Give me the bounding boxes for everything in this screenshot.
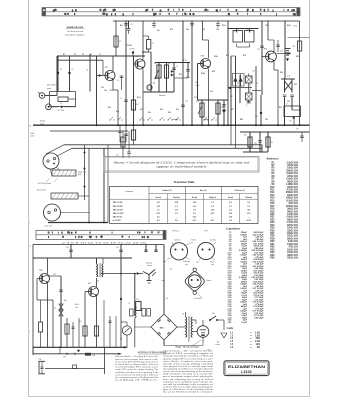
svg-text:sections below test while play: sections below test while played playing… <box>163 385 213 388</box>
svg-text:150kΩ 10%: 150kΩ 10% <box>286 170 298 172</box>
diodes D3 D4 <box>228 74 252 90</box>
meter M1 <box>120 326 132 341</box>
svg-text:33kΩ 10%: 33kΩ 10% <box>287 230 298 232</box>
svg-text:TR1 AC107: TR1 AC107 <box>113 201 123 204</box>
svg-text:overall by midlands with a num: overall by midlands with a number of <box>163 383 214 386</box>
wire bottom B <box>33 353 120 355</box>
svg-text:L6: L6 <box>29 246 31 248</box>
svg-text:L1: L1 <box>129 303 131 305</box>
page bottom border <box>29 396 310 398</box>
resistor R25 <box>266 131 273 152</box>
svg-text:C38: C38 <box>63 357 66 359</box>
svg-text:0.9: 0.9 <box>157 202 160 204</box>
svg-text:R19: R19 <box>243 55 246 57</box>
wire x256 drop <box>255 66 257 125</box>
transformer T3 <box>182 313 192 339</box>
svg-text:Coils: Coils <box>227 326 234 330</box>
wire ac mains <box>216 320 228 346</box>
svg-text:R9: R9 <box>168 63 170 65</box>
svg-text:C33: C33 <box>265 119 268 121</box>
wire bottom A (deep bus) <box>33 346 126 348</box>
svg-text:R41: R41 <box>79 321 82 323</box>
capacitor C11b on rail <box>216 20 220 28</box>
connector TP4 view <box>196 239 216 267</box>
driver stage crossover <box>281 76 295 126</box>
capacitor C39 box <box>136 299 141 311</box>
erase head (hatched) <box>37 189 78 199</box>
svg-text:C11: C11 <box>185 101 188 103</box>
svg-text:(record): (record) <box>172 119 178 121</box>
svg-text:Playback: Playback <box>245 197 252 199</box>
svg-text:Pre-Set but record: Pre-Set but record <box>67 30 83 33</box>
wire bottom C <box>45 368 105 370</box>
svg-text:C10a: C10a <box>186 77 190 79</box>
svg-text:0.75: 0.75 <box>211 220 215 222</box>
svg-text:(play): (play) <box>204 119 209 121</box>
block radio input box <box>50 92 76 107</box>
lower rail A <box>33 244 164 246</box>
capacitor C4 on rail <box>124 20 128 125</box>
capacitor C7 <box>172 62 178 92</box>
svg-text:C15: C15 <box>257 49 260 51</box>
svg-text:C27: C27 <box>289 121 292 123</box>
svg-text:C42: C42 <box>66 247 69 249</box>
wire TR3 emitter <box>208 69 210 126</box>
wire TR9 leads <box>85 291 91 293</box>
svg-text:L2: L2 <box>237 83 239 85</box>
svg-text:11.8: 11.8 <box>229 216 232 218</box>
svg-text:After Check.—Loudness, select: After Check.—Loudness, select a record- <box>163 360 214 363</box>
svg-text:A.C.: A.C. <box>217 341 221 344</box>
svg-text:47kΩ 10%: 47kΩ 10% <box>287 164 298 167</box>
transistor TR4 <box>264 49 277 62</box>
wire input bus y56 <box>57 55 145 57</box>
svg-text:R16: R16 <box>220 107 223 109</box>
svg-text:8.0: 8.0 <box>248 209 251 211</box>
svg-text:appear in individual models: appear in individual models <box>157 165 208 169</box>
svg-text:TP1/2, 3: TP1/2, 3 <box>172 231 179 233</box>
wire TR2 collector <box>142 21 144 59</box>
svg-text:C22: C22 <box>294 84 297 86</box>
wire y110 link <box>292 109 300 111</box>
svg-text:R2 100k: R2 100k <box>58 110 64 112</box>
wire x235 below bus <box>235 125 237 148</box>
resistor R41 <box>79 321 87 347</box>
svg-text:M1: M1 <box>120 339 122 341</box>
svg-text:C39: C39 <box>39 359 42 361</box>
svg-text:MB1: MB1 <box>160 328 164 330</box>
wire input bus y60 <box>57 59 103 61</box>
wire signal line B <box>72 147 262 149</box>
wire mid link y52 <box>144 51 152 53</box>
capacitors list continued <box>251 231 264 319</box>
electrolytic C10 <box>129 49 135 57</box>
transformer T2 <box>97 258 104 283</box>
svg-text:C13: C13 <box>246 29 249 31</box>
svg-text:10kΩ 10%: 10kΩ 10% <box>287 249 298 251</box>
wire y97 link <box>252 90 261 92</box>
pot RV5 <box>196 99 204 125</box>
svg-text:6.8Ω 10%: 6.8Ω 10% <box>288 241 298 243</box>
svg-text:R23: R23 <box>296 56 299 58</box>
wire TR3 base <box>198 63 204 65</box>
svg-text:56kΩ 10%: 56kΩ 10% <box>287 181 298 183</box>
svg-text:oscillator coil may need re-pe: oscillator coil may need re-peaking if t… <box>115 371 158 374</box>
svg-text:R36: R36 <box>270 257 275 260</box>
svg-text:C15a: C15a <box>265 25 269 27</box>
wire to lower section <box>103 148 105 222</box>
motor M <box>192 320 209 346</box>
svg-text:5.6kΩ 10%: 5.6kΩ 10% <box>286 217 298 219</box>
svg-text:R20: R20 <box>280 72 283 74</box>
wire x192 drop <box>190 20 197 125</box>
svg-text:C39: C39 <box>136 299 139 301</box>
svg-text:S1a: S1a <box>148 112 151 114</box>
wire mic to mixer <box>56 56 58 96</box>
svg-text:R13: R13 <box>194 97 197 99</box>
svg-text:C1: C1 <box>99 54 101 56</box>
svg-text:Emitter (V): Emitter (V) <box>163 189 173 192</box>
note erase-record text <box>65 26 84 37</box>
wire x285 drop <box>284 21 286 79</box>
svg-text:470Ω 10%: 470Ω 10% <box>287 175 298 178</box>
svg-text:erase head current falls below: erase head current falls below 18mA at <box>115 373 159 376</box>
svg-text:also playing of 3,000 c/s corr: also playing of 3,000 c/s correctly adju… <box>163 368 213 371</box>
svg-text:1.6: 1.6 <box>211 206 214 208</box>
node 12V supply rail <box>113 20 300 22</box>
capacitor C12 <box>228 29 258 43</box>
svg-text:reads 0.9V across the output w: reads 0.9V across the output winding. Th… <box>115 368 158 371</box>
svg-text:3.9kΩ 10%: 3.9kΩ 10% <box>286 173 298 175</box>
capacitor C9b on rail <box>152 20 156 28</box>
zener ZD2 <box>54 308 63 316</box>
svg-text:Va2: Va2 <box>210 91 213 93</box>
svg-text:Speaker: Speaker <box>146 261 153 264</box>
capacitor C45 <box>154 245 158 253</box>
svg-text:grounded on playback: grounded on playback <box>65 35 84 37</box>
svg-text:C3: C3 <box>82 54 84 56</box>
wire motor bottom bus <box>164 345 203 347</box>
svg-text:Resistors: Resistors <box>267 157 280 161</box>
svg-text:TR1: TR1 <box>105 67 109 69</box>
wire TR4 out arrow <box>277 53 290 55</box>
svg-text:R3: R3 <box>119 41 121 43</box>
svg-text:LZ102: LZ102 <box>241 370 251 374</box>
svg-text:C19: C19 <box>255 116 258 118</box>
svg-text:input: input <box>47 87 52 90</box>
svg-text:0.1μF: 0.1μF <box>241 322 247 324</box>
svg-text:15kΩ 10%: 15kΩ 10% <box>287 228 298 230</box>
svg-text:to check and recording switch.: to check and recording switch. Switch to <box>115 363 158 366</box>
svg-text:R17a: R17a <box>222 25 226 27</box>
wire y152 link <box>243 151 268 153</box>
svg-text:the resonant frequency. Readju: the resonant frequency. Readjust until t… <box>115 376 158 379</box>
svg-text:C5a: C5a <box>101 87 104 89</box>
capacitor C16 <box>276 40 280 52</box>
svg-text:0.6: 0.6 <box>175 220 178 222</box>
connector TP1/2 view <box>163 239 197 266</box>
wire y309 link <box>66 318 68 347</box>
svg-text:TR4 AC128*: TR4 AC128* <box>113 212 124 215</box>
svg-text:4.7kΩ 10%: 4.7kΩ 10% <box>286 189 298 192</box>
svg-text:quality output RV5 to connecti: quality output RV5 to connecting of a pr… <box>163 357 214 360</box>
coils list <box>227 326 261 349</box>
svg-text:1.4: 1.4 <box>175 206 178 208</box>
wire TR2 emitter <box>142 69 144 125</box>
wire bottom D <box>32 347 34 354</box>
svg-text:ELIZABETHAN: ELIZABETHAN <box>228 365 265 369</box>
wire TR8 leads <box>47 258 49 274</box>
svg-text:8.2kΩ 10%: 8.2kΩ 10% <box>286 200 298 202</box>
svg-text:0.6: 0.6 <box>157 220 160 222</box>
svg-text:D6: D6 <box>166 298 168 300</box>
diode D1 <box>57 55 62 91</box>
svg-text:12Ω: 12Ω <box>256 344 261 346</box>
svg-text:6.4: 6.4 <box>229 202 232 204</box>
wire TR2 base <box>134 63 138 65</box>
capacitor C42 <box>66 244 73 258</box>
bus lower-left thick <box>48 222 108 224</box>
svg-text:D2: D2 <box>72 69 74 71</box>
svg-text:C10: C10 <box>216 29 219 31</box>
svg-text:120Ω 10%: 120Ω 10% <box>287 244 298 246</box>
wire TR4 base <box>262 56 268 58</box>
svg-text:R40: R40 <box>64 300 67 302</box>
svg-text:0.3: 0.3 <box>193 213 196 215</box>
svg-text:TR8: TR8 <box>39 270 43 272</box>
svg-text:Record: Record <box>156 197 161 199</box>
svg-text:Record: Record <box>192 197 197 199</box>
svg-text:R11a: R11a <box>137 97 141 99</box>
svg-text:0.95: 0.95 <box>175 202 179 204</box>
junction dots on ground bus <box>96 124 301 126</box>
head bias components <box>116 131 131 158</box>
svg-text:ing side of the test tape play: ing side of the test tape playing a stan… <box>163 362 213 365</box>
svg-text:R15: R15 <box>212 71 215 73</box>
svg-text:the set on TV filled should be: the set on TV filled should be contacted… <box>163 391 214 394</box>
erase head connector <box>44 204 61 228</box>
svg-text:lator for correct output, firs: lator for correct output, first connect … <box>115 358 158 361</box>
text tape-head azimuth <box>163 346 214 393</box>
svg-text:R3a: R3a <box>120 25 123 27</box>
svg-text:0.35: 0.35 <box>211 213 215 215</box>
svg-text:tone; the adjusting screw may: tone; the adjusting screw may be locked <box>163 378 213 381</box>
wire speaker feed <box>120 258 122 274</box>
svg-text:S2c: S2c <box>176 109 179 111</box>
wire lower left vertical <box>32 245 34 356</box>
svg-text:C8: C8 <box>146 49 148 51</box>
svg-text:11.2: 11.2 <box>247 213 250 215</box>
pot RV2 <box>154 62 161 92</box>
svg-text:1.8kΩ 10%: 1.8kΩ 10% <box>286 233 298 235</box>
svg-text:C9a: C9a <box>186 29 189 31</box>
transistor TR1 <box>105 67 116 81</box>
wire x228 drop <box>227 21 229 125</box>
svg-text:C9c: C9c <box>157 30 160 32</box>
svg-text:R21: R21 <box>231 109 234 111</box>
svg-text:18kΩ 10%: 18kΩ 10% <box>287 195 298 197</box>
svg-text:1.2MΩ 10%: 1.2MΩ 10% <box>286 184 298 186</box>
svg-text:C30: C30 <box>254 143 257 145</box>
speaker socket <box>143 261 156 283</box>
wire TR4 collector <box>273 40 275 51</box>
svg-text:1.35: 1.35 <box>156 206 160 208</box>
test point TP1 <box>147 85 152 90</box>
capacitor C5 <box>120 98 128 102</box>
wire erase link <box>78 195 89 197</box>
lower resistor row <box>130 309 151 317</box>
svg-text:30Ω: 30Ω <box>256 338 261 340</box>
switch S1 <box>209 313 224 321</box>
svg-text:C12: C12 <box>233 31 236 33</box>
svg-text:TR3: TR3 <box>201 55 205 57</box>
svg-text:0.5Ω: 0.5Ω <box>255 341 260 343</box>
switch contacts S1-S3 <box>109 117 216 120</box>
svg-text:Playback: Playback <box>173 197 180 199</box>
resistor R3 <box>113 20 121 56</box>
svg-text:10kΩ 10%: 10kΩ 10% <box>287 168 298 170</box>
wire TR1 base <box>97 75 108 77</box>
note box <box>104 157 259 173</box>
svg-text:reading of 38kc/s.: reading of 38kc/s. <box>115 379 160 382</box>
svg-text:S1a: S1a <box>212 313 215 315</box>
svg-text:820Ω 10%: 820Ω 10% <box>287 225 298 227</box>
svg-text:R=L/S Play head: R=L/S Play head <box>38 183 51 185</box>
capacitor C30 <box>254 131 262 152</box>
resistor R24 <box>244 131 252 152</box>
svg-text:2: 2 <box>29 223 30 225</box>
wire y92 link <box>144 91 175 93</box>
wire TR3 collector <box>208 40 210 58</box>
svg-text:S1b: S1b <box>140 109 143 111</box>
wire x235 drop <box>235 56 237 125</box>
capacitors below bus left <box>118 125 135 145</box>
wire x183 drop <box>181 20 188 125</box>
record-play head (hatched) <box>52 170 86 176</box>
capacitor C2 <box>86 54 91 92</box>
svg-text:T2: T2 <box>97 281 99 283</box>
svg-text:1.5kΩ 10%: 1.5kΩ 10% <box>286 252 298 254</box>
component labels upper <box>63 25 299 121</box>
text setting up procedure <box>115 352 167 381</box>
svg-text:R15a: R15a <box>214 56 218 58</box>
svg-text:RV5: RV5 <box>196 101 199 103</box>
wire head link y131 <box>50 130 128 132</box>
svg-text:2.9: 2.9 <box>229 220 232 222</box>
wire x231 drop <box>230 56 232 125</box>
svg-text:2.0Ω: 2.0Ω <box>255 335 260 337</box>
svg-text:6.8kΩ 10%: 6.8kΩ 10% <box>286 179 298 181</box>
capacitors list <box>226 226 248 323</box>
svg-text:Base (V): Base (V) <box>200 189 207 192</box>
svg-text:L3: L3 <box>256 83 258 85</box>
enclosure box <box>85 347 105 374</box>
page right border <box>309 0 311 397</box>
svg-text:R22: R22 <box>293 46 296 48</box>
wire head leads <box>46 145 64 154</box>
svg-text:using the best condition band: using the best condition band volume the <box>163 380 213 383</box>
svg-text:Playback: Playback <box>209 197 216 199</box>
svg-text:put of maximum output while pl: put of maximum output while playing the <box>163 375 213 378</box>
wire TR1 collector <box>112 56 114 71</box>
svg-text:1.05: 1.05 <box>193 202 197 204</box>
svg-text:RV2: RV2 <box>154 63 157 65</box>
transistor TR8 <box>39 270 50 284</box>
resistor R22 <box>293 41 302 51</box>
resistors list <box>267 157 299 260</box>
svg-text:0.2: 0.2 <box>175 213 178 215</box>
svg-text:47Ω 10%: 47Ω 10% <box>288 246 298 249</box>
resistor R42 <box>38 300 98 347</box>
svg-text:1kΩ 10%: 1kΩ 10% <box>288 203 298 205</box>
svg-text:0.75: 0.75 <box>193 220 197 222</box>
svg-text:C21: C21 <box>287 101 290 103</box>
resistor R16 <box>216 99 223 125</box>
svg-text:560Ω 10%: 560Ω 10% <box>287 211 298 213</box>
wire zener link <box>37 299 53 301</box>
wire motor circuit <box>192 319 196 321</box>
bridge rectifier MB1 <box>151 314 177 340</box>
connector car socket <box>184 268 212 300</box>
svg-text:1.75: 1.75 <box>175 209 179 211</box>
svg-text:6.7: 6.7 <box>248 206 251 208</box>
svg-text:R24: R24 <box>244 135 247 137</box>
svg-text:C5: C5 <box>120 98 122 100</box>
wire lower left vertical extend <box>32 245 34 348</box>
wire bias y62 <box>155 62 190 64</box>
diode D2 <box>68 55 73 91</box>
svg-text:Transistor: Transistor <box>125 191 133 193</box>
wire head column B <box>88 148 90 222</box>
resistor R6a <box>74 54 92 56</box>
svg-text:TR4: TR4 <box>264 49 268 51</box>
capacitor C38 bracket <box>39 359 46 374</box>
svg-text:R45: R45 <box>93 355 96 357</box>
svg-text:39kΩ 10%: 39kΩ 10% <box>287 209 298 211</box>
svg-text:390Ω 10%: 390Ω 10% <box>287 255 298 257</box>
svg-text:90kΩ 10%: 90kΩ 10% <box>287 238 298 240</box>
svg-text:R18: R18 <box>226 55 229 57</box>
svg-text:Vibrator: Vibrator <box>159 94 166 97</box>
top locator ruler <box>42 8 300 16</box>
svg-text:330kΩ 10%: 330kΩ 10% <box>286 192 298 194</box>
svg-text:R17: R17 <box>230 96 233 98</box>
svg-text:68kΩ 10%: 68kΩ 10% <box>287 219 298 221</box>
transistor table <box>110 180 259 224</box>
zener ZD1 <box>59 276 63 347</box>
transistor TR3 <box>201 55 211 68</box>
svg-text:10.75: 10.75 <box>247 220 252 222</box>
wire head column A <box>84 145 86 200</box>
svg-text:TP5: TP5 <box>170 269 173 271</box>
wire x231 below bus <box>230 125 232 145</box>
svg-text:D1: D1 <box>60 69 62 71</box>
svg-text:S2b: S2b <box>168 112 171 114</box>
svg-text:Capacitors: Capacitors <box>226 226 241 230</box>
svg-text:R5: R5 <box>152 43 154 45</box>
wire bridge feed <box>163 245 165 315</box>
wire x224 drop <box>222 100 226 125</box>
svg-text:0.45: 0.45 <box>193 216 197 218</box>
svg-text:C9: C9 <box>131 24 133 26</box>
svg-text:screw, the head positioning at: screw, the head positioning at the best … <box>163 370 214 373</box>
svg-text:Radio: Radio <box>40 121 45 123</box>
lower rail B <box>33 257 132 259</box>
capacitor C32 <box>296 129 304 143</box>
svg-text:Record: Record <box>228 197 233 199</box>
inductor L1 <box>129 303 152 347</box>
svg-text:11.4: 11.4 <box>229 213 232 215</box>
